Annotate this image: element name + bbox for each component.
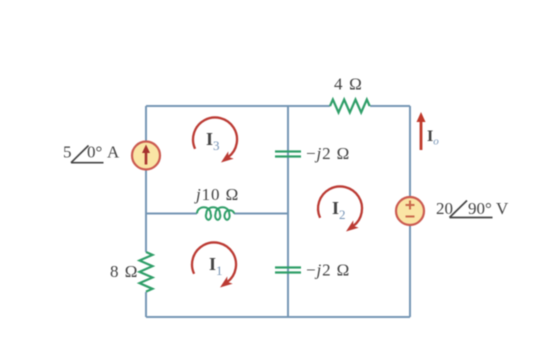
svg-text:8 Ω: 8 Ω <box>110 262 138 281</box>
svg-text:4 Ω: 4 Ω <box>334 75 363 94</box>
wire: top right horizontal (resistor to top-right corner) <box>370 105 410 107</box>
capacitor C1 -j2 ohm (upper middle) <box>275 152 301 157</box>
wire: left vertical lower (8-ohm resistor to bottom corner) <box>145 292 147 317</box>
wire: left vertical (top corner to 8-ohm resistor, passes behind current source) <box>145 106 147 252</box>
voltage source 20 angle 90 V <box>396 197 424 225</box>
wire: middle vertical (node B top to node C bottom, passes behind both capacitors) <box>287 106 289 317</box>
svg-text:20: 20 <box>436 199 453 218</box>
svg-text:I3: I3 <box>206 129 220 153</box>
wire: right vertical (top corner to bottom corner, passes behind voltage source) <box>409 106 411 317</box>
mesh current I3 loop <box>193 117 237 157</box>
resistor 4 ohm (top) <box>330 100 370 113</box>
inductor j10 ohm <box>197 207 234 220</box>
wire: middle horizontal right of inductor <box>234 213 288 215</box>
svg-text:I1: I1 <box>209 254 223 278</box>
svg-text:A: A <box>107 143 120 162</box>
wire: top left horizontal (node A to resistor) <box>146 105 330 107</box>
svg-text:90°: 90° <box>468 199 492 218</box>
svg-text:0°: 0° <box>87 143 102 162</box>
current Io arrow <box>417 112 426 150</box>
resistor 8 ohm (left) <box>140 252 153 292</box>
label 20 angle 90 V <box>436 199 509 218</box>
svg-text:Io: Io <box>427 128 439 148</box>
capacitor C2 -j2 ohm (lower middle) <box>275 268 301 273</box>
wire: middle horizontal left of inductor <box>146 213 197 215</box>
mesh current I2 loop <box>318 186 362 226</box>
label 5 angle 0 A <box>63 143 120 163</box>
svg-text:−j2 Ω: −j2 Ω <box>306 144 350 163</box>
svg-text:j10 Ω: j10 Ω <box>194 185 239 204</box>
wire: bottom horizontal <box>146 316 410 318</box>
mesh current I1 loop <box>192 242 236 282</box>
svg-text:−j2 Ω: −j2 Ω <box>306 261 350 280</box>
svg-text:V: V <box>496 199 509 218</box>
svg-text:I2: I2 <box>332 198 346 222</box>
current source 5 angle 0 A <box>132 142 160 170</box>
svg-text:5: 5 <box>63 143 72 162</box>
